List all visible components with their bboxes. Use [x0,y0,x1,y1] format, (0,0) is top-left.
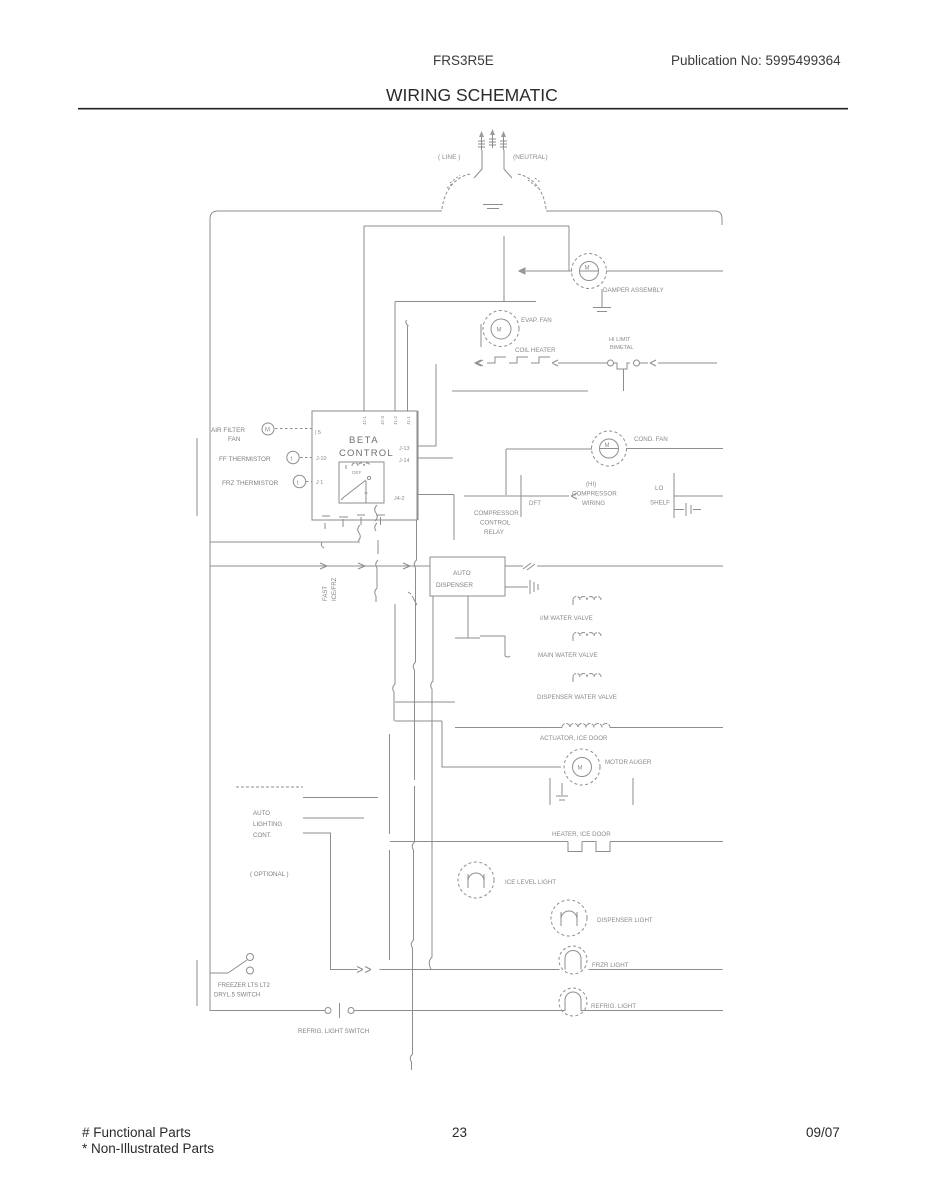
damper ground [593,289,611,312]
svg-text:CONTROL: CONTROL [339,448,394,459]
svg-text:FRS3R5E: FRS3R5E [433,53,494,68]
svg-text:AUTO: AUTO [253,810,270,817]
svg-text:RELAY: RELAY [484,529,504,536]
relay output pin [365,481,368,503]
svg-text:M: M [605,443,610,449]
damper wire [535,270,572,272]
wire y721 [395,720,442,722]
cond fan feed riser [505,449,507,495]
svg-text:WIRING: WIRING [582,500,605,507]
AUTO ground [530,580,538,594]
svg-text:DISPENSER: DISPENSER [436,582,473,589]
step x442 [442,721,561,767]
damper wire connector [519,268,535,274]
svg-text:MAIN WATER VALVE: MAIN WATER VALVE [538,652,598,659]
plug body hatch left [447,175,460,188]
wire stub from inner box top down [503,236,505,301]
left margin bracket top [196,438,198,516]
main wire 1 (defrost) [210,541,360,543]
svg-text:CONTROL: CONTROL [480,520,511,527]
svg-text:FRZR LIGHT: FRZR LIGHT [592,962,629,969]
wire horizontal to evap fan [395,301,536,303]
svg-text:J-13: J-13 [399,446,410,452]
svg-text:M: M [497,328,502,334]
svg-text:AUTO: AUTO [453,570,471,577]
refrig light switch [325,1008,331,1014]
freezer light lamp [559,946,587,974]
svg-text:FRZ THERMISTOR: FRZ THERMISTOR [222,480,279,487]
cond fan wire to right [626,448,723,450]
outer box bottom edge / refrig light circuit [210,1010,325,1012]
svg-text:EVAP. FAN: EVAP. FAN [521,317,552,324]
auto lighting wire c [303,833,331,970]
svg-text:J 1: J 1 [316,480,323,486]
dispenser light [551,900,587,936]
svg-text:# Functional Parts: # Functional Parts [82,1125,191,1140]
svg-text:BETA: BETA [349,435,379,446]
svg-text:ACTUATOR, ICE DOOR: ACTUATOR, ICE DOOR [540,735,608,742]
freezer lights switch [210,972,228,974]
inner box right edge [568,226,570,271]
svg-text:J1-2: J1-2 [393,416,398,425]
J4-2 drop [453,495,455,541]
svg-text:09/07: 09/07 [806,1125,840,1140]
actuator ice door coil [562,724,610,728]
svg-text:* Non-Illustrated Parts: * Non-Illustrated Parts [82,1141,214,1156]
title rule [78,108,848,110]
left margin bracket bottom [196,960,198,1006]
auto lighting wire a [303,797,378,799]
heater ice door element [568,842,623,852]
svg-text:M: M [578,766,583,772]
ice level light [458,862,494,898]
main wire 2 (line bus) [210,565,430,567]
bus riser x416 from control [410,520,416,1070]
FF thermistor symbol [287,451,299,463]
relay contact stubs under control [358,505,378,541]
ground inside plug [483,205,503,209]
wire down to control J pin [394,302,396,412]
heater ice door wire [390,841,723,843]
svg-text:ICE/FRZ: ICE/FRZ [332,577,338,601]
svg-text:COMPRESSOR: COMPRESSOR [474,510,519,517]
svg-text:ICE LEVEL LIGHT: ICE LEVEL LIGHT [505,879,556,886]
AUTO defrost box [430,557,505,596]
OL vertical [673,473,675,518]
dashed lead to control [275,428,312,430]
svg-text:J4-2: J4-2 [394,496,405,502]
relay coil [346,463,370,470]
power plug prong 3 (neutral) [500,131,507,150]
outer box right edge stub [721,219,723,225]
svg-text:HEATER, ICE DOOR: HEATER, ICE DOOR [552,831,611,838]
bus riser x378 [375,540,378,602]
BETA bottom pin hashes [321,515,385,529]
svg-text:J2-3: J2-3 [380,416,385,425]
svg-text:J2-1: J2-1 [362,416,367,425]
auto lighting wire b [303,817,364,819]
freezer light connectors [357,967,371,973]
svg-text:COND. FAN: COND. FAN [634,436,668,443]
wire from line prong [474,150,482,178]
I/M water valve coil [573,597,601,607]
svg-text:DISPENSER WATER VALVE: DISPENSER WATER VALVE [537,694,617,701]
wire 2 connector arrows [320,563,410,569]
defrost heater return wire [452,390,588,392]
evap fan motor circle [483,311,519,347]
svg-text:COMPRESSOR: COMPRESSOR [572,491,617,498]
svg-text:CONT.: CONT. [253,832,272,839]
svg-text:MOTOR AUGER: MOTOR AUGER [605,759,652,766]
refrig light lamp [559,988,587,1016]
wire from AUTO right with switch [505,563,723,570]
wire pin J down [406,320,409,326]
plug body outline [442,174,471,209]
BETA control box [312,411,417,520]
cond fan wire [506,448,592,450]
air filter fan motor M [262,423,274,435]
J-14 wire [418,457,454,459]
freezer light wire [331,969,723,971]
svg-text:LIGHTING: LIGHTING [253,821,282,828]
svg-text:DISPENSER LIGHT: DISPENSER LIGHT [597,917,653,924]
AUTO bottom drop x433 [429,596,433,969]
drop from AUTO bottom x468 [467,596,469,638]
bimetal stub down [623,369,625,391]
compressor control relay contact [464,493,577,499]
BETA inner relay box [339,462,384,503]
svg-text:AIR FILTER: AIR FILTER [211,427,245,434]
riser x389 [389,734,391,960]
svg-text:FAST: FAST [323,586,329,601]
cond fan motor circle [592,431,627,466]
riser x395 [393,604,395,721]
inner box top edge [364,225,569,227]
inner box left edge [363,226,365,411]
svg-text:( OPTIONAL ): ( OPTIONAL ) [250,871,289,878]
svg-text:HI LIMIT: HI LIMIT [609,337,631,343]
svg-text:(HI): (HI) [586,481,596,488]
svg-text:t: t [297,481,299,487]
power plug prong 2 (ground) [489,129,496,148]
svg-text:BIMETAL: BIMETAL [610,345,634,351]
switch arm at x416 [408,592,417,605]
svg-text:J-14: J-14 [399,458,410,464]
svg-text:J-10: J-10 [316,456,327,462]
svg-text:FAN: FAN [228,436,241,443]
wire 1 hook [321,542,324,548]
svg-text:REFRIG. LIGHT SWITCH: REFRIG. LIGHT SWITCH [298,1028,369,1035]
crusher plate right [632,778,634,805]
power plug prong 1 (line) [478,131,485,150]
AUTO ground wire [505,586,528,588]
svg-text:(NEUTRAL): (NEUTRAL) [513,154,548,161]
svg-text:FF THERMISTOR: FF THERMISTOR [219,456,271,463]
refrig light wire [354,1010,723,1012]
outer box top edge (left of plug) [210,211,442,219]
relay switch arm [341,480,366,500]
damper wire to right edge [606,270,723,272]
svg-text:DRYL.5 SWITCH: DRYL.5 SWITCH [214,993,260,999]
svg-text:M: M [265,428,270,434]
defrost bimetal [608,360,718,369]
svg-text:J1-1: J1-1 [406,416,411,425]
actuator wire [455,727,723,729]
svg-text:23: 23 [452,1125,467,1140]
svg-text:t: t [291,457,293,463]
svg-text:WIRING SCHEMATIC: WIRING SCHEMATIC [386,85,558,105]
auger ground [556,783,568,800]
J-13 riser [435,364,437,446]
svg-text:DAMPER ASSEMBLY: DAMPER ASSEMBLY [603,287,664,294]
auto lighting control dashes [236,786,303,788]
dispenser water valve coil [573,674,601,684]
svg-text:COIL HEATER: COIL HEATER [515,347,556,354]
svg-text:SHELF: SHELF [650,500,670,507]
motor auger circle [564,749,600,785]
svg-text:Publication No: 5995499364: Publication No: 5995499364 [671,53,841,68]
outer box left edge [209,219,211,1011]
valve return jog [455,636,510,657]
main water valve coil [573,633,601,643]
outer box top edge (right of plug) [546,211,722,219]
J4-2 wire [418,494,455,496]
coil heater element [475,357,607,366]
svg-text:M: M [585,266,590,272]
svg-text:DEF: DEF [352,470,362,476]
svg-text:DFT: DFT [529,500,541,507]
run capacitor [674,503,701,516]
svg-text:I/M WATER VALVE: I/M WATER VALVE [540,615,593,622]
FRZ thermistor symbol [293,475,305,487]
svg-text:| 5: | 5 [315,430,321,436]
J-13 wire [418,445,437,447]
svg-text:LO: LO [655,485,663,492]
svg-text:( LINE ): ( LINE ) [438,154,460,161]
OL wire right [674,495,723,497]
wire y702 [395,701,455,703]
damper assembly M circle [572,254,607,289]
wire from neutral prong [504,150,512,178]
svg-text:FREEZER LTS LT2: FREEZER LTS LT2 [218,983,270,989]
svg-text:REFRIG. LIGHT: REFRIG. LIGHT [591,1003,636,1010]
plug body hatch right [528,178,541,188]
crusher plate left [549,778,551,805]
